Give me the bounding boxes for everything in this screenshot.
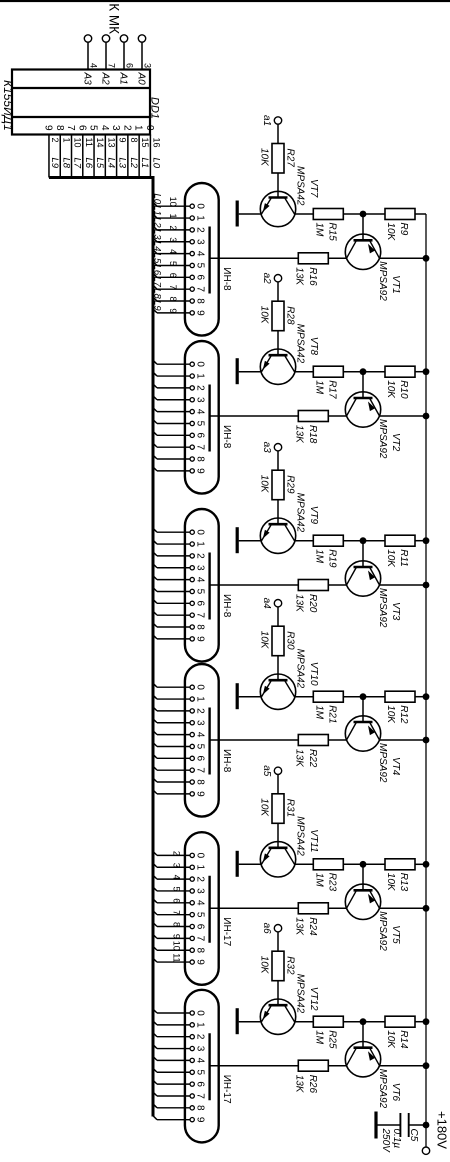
node а6 input terminal <box>261 923 282 952</box>
svg-text:8: 8 <box>172 922 182 927</box>
wire <box>362 541 364 567</box>
svg-text:14: 14 <box>95 138 105 148</box>
tube 1 cathode pin 9 <box>152 300 206 316</box>
svg-text:1: 1 <box>195 864 206 870</box>
tube 1 cathode pin 8 <box>152 288 206 304</box>
svg-text:MPSA42: MPSA42 <box>295 324 306 364</box>
tube 2 cathode pin 2 <box>153 383 206 391</box>
svg-text:VT3: VT3 <box>390 602 401 621</box>
svg-text:5: 5 <box>195 263 206 269</box>
wire <box>362 1022 364 1048</box>
wire <box>362 214 364 240</box>
tube 3 cathode pin 0 <box>153 528 206 536</box>
wire (anode) <box>210 1065 299 1067</box>
svg-text:3: 3 <box>195 1046 206 1052</box>
svg-text:10K: 10K <box>385 1030 396 1049</box>
wire <box>295 540 314 542</box>
svg-text:1M: 1M <box>314 705 325 720</box>
DD1 output 0 (pin 16) net L0 <box>144 125 162 178</box>
svg-text:R26: R26 <box>307 1075 318 1094</box>
svg-text:9: 9 <box>195 1117 206 1123</box>
cathode bus vertical segment <box>49 176 152 179</box>
resistor R15 1M <box>313 209 363 242</box>
svg-text:L0: L0 <box>152 193 163 204</box>
tube 1 cathode pin 3 <box>152 229 206 245</box>
svg-text:7: 7 <box>195 286 206 292</box>
DD1 output 6 (pin 11) net L6 <box>76 125 94 178</box>
svg-text:10: 10 <box>73 138 83 148</box>
svg-text:7: 7 <box>65 125 76 131</box>
resistor R24 13K <box>294 903 329 937</box>
resistor R18 13K <box>294 411 329 445</box>
IC DD1 K155ID1 body <box>1 70 161 135</box>
ground (VT7 emitter) <box>237 201 261 227</box>
tube 5 cathode pin 7 <box>153 934 206 942</box>
svg-text:VT7: VT7 <box>308 179 319 198</box>
node junction (base divider) <box>360 368 367 375</box>
wire <box>380 907 427 909</box>
svg-text:1M: 1M <box>314 380 325 395</box>
svg-text:R10: R10 <box>398 380 409 399</box>
resistor R17 1M <box>313 366 363 399</box>
svg-text:а2: а2 <box>261 273 272 285</box>
resistor R30 10K <box>259 626 296 680</box>
svg-text:250V: 250V <box>380 1128 391 1154</box>
wire (anode) <box>210 739 299 741</box>
tube 3 cathode pin 1 <box>153 540 206 548</box>
wire <box>362 372 364 398</box>
junction on +180V rail <box>423 255 430 262</box>
svg-text:L6: L6 <box>83 158 94 169</box>
svg-text:MPSA92: MPSA92 <box>377 1069 388 1109</box>
svg-text:VT8: VT8 <box>308 337 319 356</box>
tube 1 cathode pin 6 <box>152 265 206 281</box>
svg-text:R24: R24 <box>307 917 318 936</box>
svg-text:R11: R11 <box>398 549 409 567</box>
tube 2 cathode pin 9 <box>153 466 206 474</box>
svg-text:9: 9 <box>195 791 206 797</box>
svg-text:L1: L1 <box>152 205 163 216</box>
svg-text:13K: 13K <box>294 917 305 936</box>
ground (C5) <box>374 1112 377 1139</box>
svg-text:11: 11 <box>84 138 94 147</box>
svg-text:R12: R12 <box>398 705 409 724</box>
svg-text:R18: R18 <box>307 425 318 444</box>
svg-text:К МК: К МК <box>107 3 122 34</box>
tube 4 cathode pin 9 <box>153 789 206 797</box>
DD1 output 7 (pin 10) net L7 <box>65 125 83 178</box>
svg-text:R16: R16 <box>307 267 318 286</box>
junction on +180V rail <box>423 905 430 912</box>
+180V rail <box>425 214 427 1147</box>
svg-text:3: 3 <box>110 125 121 131</box>
wire <box>380 739 427 741</box>
tube 6 cathode pin 7 <box>153 1091 206 1099</box>
svg-text:R22: R22 <box>307 749 318 768</box>
svg-text:13K: 13K <box>294 594 305 613</box>
tube 4 cathode pin 8 <box>153 778 206 786</box>
input pin А2 (pin 7) with terminal <box>100 35 117 85</box>
tube 5 cathode pin 9 <box>153 953 206 965</box>
tube 6 cathode pin 4 <box>153 1056 206 1064</box>
tube 6 cathode pin 1 <box>153 1020 206 1028</box>
node а2 input terminal <box>261 273 282 302</box>
svg-text:L7: L7 <box>72 158 83 169</box>
svg-text:К155ИД1: К155ИД1 <box>1 80 15 131</box>
transistor VT9 MPSA42 <box>260 493 319 554</box>
transistor VT7 MPSA42 <box>260 166 319 227</box>
svg-text:10K: 10K <box>385 873 396 892</box>
tube 4 cathode pin 3 <box>153 718 206 726</box>
node junction (base divider) <box>360 1018 367 1025</box>
svg-text:7: 7 <box>195 936 206 942</box>
wire <box>380 257 427 259</box>
junction on +180V rail <box>423 537 430 544</box>
tube 6 cathode pin 3 <box>153 1044 206 1052</box>
svg-text:VT6: VT6 <box>390 1083 401 1102</box>
svg-text:R21: R21 <box>327 705 338 723</box>
wire <box>295 1021 314 1023</box>
transistor VT2 MPSA92 <box>345 392 401 459</box>
tube 4 cathode pin 1 <box>153 695 206 703</box>
resistor R10 10K <box>363 366 426 399</box>
tube 4 cathode pin 7 <box>153 766 206 774</box>
transistor VT5 MPSA92 <box>345 884 401 951</box>
svg-text:7: 7 <box>195 767 206 773</box>
wire <box>380 415 427 417</box>
svg-text:4: 4 <box>172 875 182 880</box>
svg-text:8: 8 <box>195 947 206 953</box>
svg-text:ИН-8: ИН-8 <box>221 594 232 618</box>
svg-text:а3: а3 <box>261 442 272 454</box>
svg-text:7: 7 <box>195 612 206 618</box>
tube 4 cathode pin 0 <box>153 683 206 691</box>
svg-text:9: 9 <box>42 125 53 131</box>
resistor R14 10K <box>363 1016 426 1049</box>
junction on +180V rail <box>423 861 430 868</box>
svg-text:L7: L7 <box>152 276 163 287</box>
svg-text:3: 3 <box>195 888 206 894</box>
tube 6 cathode pin 5 <box>153 1068 206 1076</box>
svg-text:9: 9 <box>195 310 206 316</box>
tube 2 cathode pin 5 <box>153 419 206 427</box>
node junction (base divider) <box>360 861 367 868</box>
svg-text:4: 4 <box>168 249 178 254</box>
svg-text:4: 4 <box>195 900 206 906</box>
svg-text:9: 9 <box>195 959 206 965</box>
DD1 output 2 (pin 8) net L2 <box>121 125 139 178</box>
svg-text:2: 2 <box>195 876 206 882</box>
svg-text:L2: L2 <box>152 217 163 228</box>
svg-text:8: 8 <box>54 125 65 131</box>
svg-text:R13: R13 <box>398 873 409 892</box>
svg-text:VT9: VT9 <box>308 506 319 525</box>
junction on +180V rail <box>423 1062 430 1069</box>
nixie tube ИН-17 (position 5) envelope <box>185 832 232 985</box>
tube 5 cathode pin 3 <box>153 886 206 894</box>
svg-text:8: 8 <box>195 779 206 785</box>
resistor R11 10K <box>363 535 426 568</box>
ground (VT11 emitter) <box>237 851 261 877</box>
svg-text:10K: 10K <box>385 223 396 242</box>
anode bar (tube 1) <box>208 227 210 294</box>
svg-text:MPSA92: MPSA92 <box>377 419 388 459</box>
resistor R23 1M <box>313 859 363 892</box>
nixie tube ИН-8 (position 1) envelope <box>185 183 232 336</box>
wire (anode) <box>210 257 299 259</box>
svg-text:L2: L2 <box>128 158 139 169</box>
tube 4 cathode pin 5 <box>153 742 206 750</box>
svg-text:10K: 10K <box>259 798 270 817</box>
cathode bus horizontal segment <box>152 176 155 1117</box>
transistor VT6 MPSA92 <box>345 1042 401 1109</box>
tube 2 cathode pin 0 <box>153 360 206 368</box>
junction on +180V rail (C5) <box>423 1122 430 1129</box>
tube 1 cathode pin 2 <box>152 217 206 233</box>
svg-text:ИН-8: ИН-8 <box>221 425 232 449</box>
resistor R27 10K <box>259 144 296 198</box>
svg-text:11: 11 <box>172 953 182 962</box>
junction on +180V rail <box>423 368 430 375</box>
svg-text:13K: 13K <box>294 425 305 444</box>
tube 3 cathode pin 3 <box>153 563 206 571</box>
tube 2 cathode pin 1 <box>153 372 206 380</box>
svg-text:R29: R29 <box>285 475 296 494</box>
svg-text:7: 7 <box>107 63 117 68</box>
DD1 output 8 (pin 1) net L8 <box>54 125 72 178</box>
resistor R21 1M <box>313 691 363 723</box>
svg-text:1: 1 <box>133 125 144 131</box>
ground (VT10 emitter) <box>237 683 261 709</box>
svg-text:MPSA42: MPSA42 <box>295 493 306 533</box>
svg-text:0: 0 <box>195 1010 206 1016</box>
tube 1 cathode pin 0 <box>152 193 206 209</box>
resistor R9 10K <box>363 209 426 242</box>
svg-text:L9: L9 <box>152 300 163 311</box>
svg-text:MPSA92: MPSA92 <box>377 261 388 301</box>
svg-text:5: 5 <box>195 421 206 427</box>
svg-text:R19: R19 <box>327 549 338 568</box>
tube 5 cathode pin 4 <box>153 898 206 906</box>
svg-text:2: 2 <box>195 227 206 233</box>
wire <box>380 584 427 586</box>
svg-text:R9: R9 <box>398 223 409 236</box>
junction on +180V rail <box>423 413 430 420</box>
resistor R13 10K <box>363 859 426 892</box>
DD1 output 1 (pin 15) net L1 <box>133 125 151 178</box>
svg-text:L5: L5 <box>152 253 163 264</box>
svg-text:13: 13 <box>106 138 116 148</box>
svg-text:А0: А0 <box>136 72 147 86</box>
svg-text:VT1: VT1 <box>390 275 401 293</box>
transistor VT12 MPSA42 <box>260 974 319 1035</box>
svg-text:10K: 10K <box>385 549 396 568</box>
tube 1 cathode pin 5 <box>152 253 206 269</box>
svg-text:R28: R28 <box>285 306 296 325</box>
svg-text:ИН-8: ИН-8 <box>221 749 232 773</box>
svg-text:1M: 1M <box>314 873 325 888</box>
nixie tube ИН-8 (position 2) envelope <box>185 341 232 494</box>
svg-text:6: 6 <box>172 898 182 903</box>
svg-text:MPSA42: MPSA42 <box>295 166 306 206</box>
tube 1 cathode pin 4 <box>152 241 206 257</box>
transistor VT3 MPSA92 <box>345 561 401 628</box>
svg-text:0: 0 <box>195 529 206 535</box>
svg-text:2: 2 <box>168 225 178 230</box>
resistor R25 1M <box>313 1016 363 1049</box>
svg-text:R25: R25 <box>327 1030 338 1049</box>
svg-text:а6: а6 <box>261 923 272 935</box>
svg-text:VT5: VT5 <box>390 925 401 944</box>
junction on +180V rail <box>423 737 430 744</box>
svg-text:L0: L0 <box>150 158 161 169</box>
svg-text:0: 0 <box>195 853 206 859</box>
tube 5 cathode pin 1 <box>153 863 206 871</box>
svg-text:6: 6 <box>195 601 206 607</box>
svg-text:7: 7 <box>172 910 182 915</box>
node а5 input terminal <box>261 765 282 794</box>
svg-text:L9: L9 <box>49 158 60 169</box>
svg-text:1: 1 <box>168 214 178 219</box>
svg-text:ИН-17: ИН-17 <box>221 917 232 946</box>
svg-text:3: 3 <box>195 397 206 403</box>
svg-text:6: 6 <box>195 275 206 281</box>
svg-text:0.1µ: 0.1µ <box>391 1129 402 1149</box>
tube 5 cathode pin 8 <box>153 941 206 954</box>
svg-text:R31: R31 <box>285 799 296 817</box>
input pin А1 (pin 6) with terminal <box>118 35 135 85</box>
input pin А3 (pin 4) with terminal <box>82 35 99 85</box>
tube 2 cathode pin 4 <box>153 407 206 415</box>
svg-text:VT12: VT12 <box>308 987 319 1011</box>
svg-text:10K: 10K <box>259 631 270 650</box>
svg-text:ИН-17: ИН-17 <box>221 1075 232 1104</box>
svg-text:5: 5 <box>195 589 206 595</box>
svg-text:10: 10 <box>168 197 178 207</box>
DD1 output 3 (pin 9) net L3 <box>110 125 128 178</box>
wire <box>362 697 364 722</box>
DD1 output 5 (pin 14) net L5 <box>88 125 106 178</box>
svg-text:4: 4 <box>195 577 206 583</box>
node а4 input terminal <box>261 598 282 627</box>
nixie tube ИН-17 (position 6) envelope <box>185 990 232 1143</box>
node а3 input terminal <box>261 442 282 471</box>
border line (top edge) <box>0 0 450 2</box>
transistor VT4 MPSA92 <box>345 716 401 783</box>
svg-text:8: 8 <box>195 456 206 462</box>
tube 2 cathode pin 3 <box>153 395 206 403</box>
svg-text:MPSA42: MPSA42 <box>295 649 306 689</box>
svg-text:R14: R14 <box>398 1030 409 1049</box>
anode bar (tube 3) <box>208 553 210 620</box>
resistor R19 1M <box>313 535 363 568</box>
wire <box>380 1065 427 1067</box>
svg-text:5: 5 <box>195 1069 206 1075</box>
svg-text:5: 5 <box>88 125 99 131</box>
svg-text:4: 4 <box>195 251 206 257</box>
label К МК (to MCU) <box>107 3 122 34</box>
tube 4 cathode pin 6 <box>153 754 206 762</box>
svg-text:VT2: VT2 <box>390 433 401 452</box>
svg-text:3: 3 <box>172 863 182 868</box>
resistor R16 13K <box>294 253 329 287</box>
nixie tube ИН-8 (position 3) envelope <box>185 509 232 662</box>
node junction (base divider) <box>360 211 367 218</box>
anode bar (tube 5) <box>208 876 210 943</box>
svg-text:L3: L3 <box>152 229 163 240</box>
svg-text:А3: А3 <box>82 72 93 86</box>
svg-text:3: 3 <box>195 239 206 245</box>
svg-text:8: 8 <box>195 1105 206 1111</box>
svg-text:10K: 10K <box>259 475 270 494</box>
wire <box>295 863 314 865</box>
tube 2 cathode pin 7 <box>153 443 206 451</box>
svg-text:2: 2 <box>121 125 132 131</box>
svg-text:4: 4 <box>195 1058 206 1064</box>
svg-text:3: 3 <box>143 63 153 68</box>
tube 3 cathode pin 6 <box>153 599 206 607</box>
svg-text:MPSA92: MPSA92 <box>377 743 388 783</box>
svg-text:1: 1 <box>195 696 206 702</box>
svg-text:15: 15 <box>140 138 150 148</box>
svg-text:R32: R32 <box>285 956 296 975</box>
svg-text:2: 2 <box>195 708 206 714</box>
junction on +180V rail <box>423 582 430 589</box>
DD1 output 9 (pin 2) net L9 <box>42 125 60 178</box>
tube 3 cathode pin 4 <box>153 575 206 583</box>
wire (anode) <box>210 907 299 909</box>
svg-text:0: 0 <box>144 125 155 131</box>
svg-text:10K: 10K <box>385 705 396 724</box>
wire <box>295 696 314 698</box>
svg-text:R20: R20 <box>307 594 318 613</box>
tube 3 cathode pin 8 <box>153 623 206 631</box>
tube 6 cathode pin 8 <box>153 1103 206 1111</box>
svg-text:8: 8 <box>129 138 139 143</box>
tube 4 cathode pin 2 <box>153 706 206 714</box>
svg-text:4: 4 <box>195 409 206 415</box>
svg-text:L8: L8 <box>152 288 163 299</box>
svg-text:L6: L6 <box>152 265 163 276</box>
node junction (base divider) <box>360 537 367 544</box>
svg-text:0: 0 <box>195 684 206 690</box>
svg-text:10K: 10K <box>385 380 396 399</box>
wire <box>328 584 346 586</box>
svg-text:9: 9 <box>195 468 206 474</box>
tube 6 cathode pin 2 <box>153 1032 206 1040</box>
svg-text:R15: R15 <box>327 223 338 242</box>
svg-text:5: 5 <box>195 912 206 918</box>
svg-text:1M: 1M <box>314 1030 325 1045</box>
svg-text:L4: L4 <box>105 158 116 169</box>
svg-text:4: 4 <box>89 63 99 68</box>
node а1 input terminal <box>261 115 282 144</box>
svg-text:3: 3 <box>195 720 206 726</box>
svg-text:6: 6 <box>168 273 178 278</box>
resistor R31 10K <box>259 794 296 848</box>
svg-text:R30: R30 <box>285 631 296 650</box>
svg-text:MPSA92: MPSA92 <box>377 588 388 628</box>
svg-text:1M: 1M <box>314 549 325 564</box>
tube 5 cathode pin 6 <box>153 922 206 930</box>
resistor R32 10K <box>259 951 296 1005</box>
svg-text:2: 2 <box>195 553 206 559</box>
svg-text:L1: L1 <box>139 158 150 169</box>
wire <box>328 739 346 741</box>
svg-text:8: 8 <box>168 297 178 302</box>
resistor R12 10K <box>363 691 426 724</box>
svg-text:C5: C5 <box>408 1129 419 1142</box>
